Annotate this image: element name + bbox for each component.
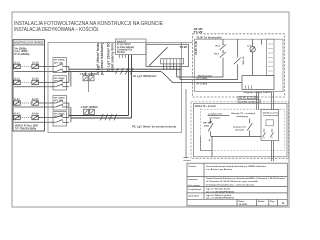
svg-text:2.4–2.6: 2.4–2.6 <box>32 77 39 80</box>
PV module string 1 last panel 1.4–1.6 <box>32 64 38 68</box>
battery stack tall box <box>267 39 274 75</box>
wire string 2 minus <box>14 86 56 88</box>
svg-text:Instalacja fotowoltaiczna – sc: Instalacja fotowoltaiczna – schemat ideo… <box>206 183 255 186</box>
svg-text:P=9,12kWp: P=9,12kWp <box>15 53 31 56</box>
svg-text:przyłączenie: przyłączenie <box>233 126 247 129</box>
svg-text:3.1–3.3: 3.1–3.3 <box>14 99 20 101</box>
meter slash <box>250 47 254 52</box>
incoming line <box>208 115 230 117</box>
fuse-disconnect group F1 box <box>53 58 67 73</box>
title block table <box>187 163 287 206</box>
svg-text:4.1–4.3: 4.1–4.3 <box>14 113 20 116</box>
svg-text:10.2021: 10.2021 <box>239 204 249 206</box>
svg-text:po trasie kablowej: po trasie kablowej <box>100 43 104 75</box>
riser wire lower minus <box>131 55 133 119</box>
TG board solid box <box>193 103 287 156</box>
wire below WB <box>237 64 239 79</box>
svg-text:Data:: Data: <box>239 200 245 203</box>
sub-board breaker 1 <box>263 129 266 139</box>
svg-text:Ust. sprawy:: Ust. sprawy: <box>188 184 200 187</box>
svg-text:TLW: TLW <box>180 45 188 49</box>
svg-text:mgr inż. Witold Cybulski: mgr inż. Witold Cybulski <box>206 194 231 197</box>
svg-text:kabel solarny 6mm: kabel solarny 6mm <box>110 43 114 72</box>
PV module string 4 first panel 4.1–4.3 <box>14 115 20 119</box>
svg-text:Rys:: Rys: <box>270 201 275 203</box>
sub-board device box <box>266 120 273 126</box>
wire out of blade <box>62 65 69 67</box>
switch blade F3 wire y=103.0 <box>56 100 62 103</box>
breaker SP blade <box>208 123 213 131</box>
riser wire lower plus <box>128 55 130 116</box>
wire pair down to TG b1 <box>271 92 273 111</box>
combiner output vertical 2 <box>179 69 181 79</box>
dashed series link string 4 <box>20 117 32 119</box>
svg-text:2.1–2.3: 2.1–2.3 <box>14 78 20 80</box>
wire pair down to TG a1 <box>256 92 258 111</box>
meter circle C2 <box>250 47 255 52</box>
wire string 4 minus <box>14 121 56 123</box>
disconnect switch Q2 <box>220 52 226 58</box>
wire pair down to TG b2 <box>273 92 275 111</box>
svg-text:Sprawdził:: Sprawdził: <box>188 195 199 197</box>
DC feed wire 2 to inverter <box>180 79 238 81</box>
svg-text:KONSTRUKCJA NA GRUNCIE: KONSTRUKCJA NA GRUNCIE <box>14 41 44 45</box>
wire stub inverter bus <box>261 39 263 44</box>
feeder switch wire top <box>249 119 251 124</box>
terminal strip <box>161 59 184 64</box>
switch blade F3 wire y=107.0 <box>56 104 62 107</box>
fuse-disconnect group F2 box <box>53 76 67 90</box>
sub-board outgoing wire 2 <box>273 141 275 162</box>
cable tag box SL TL <box>238 96 257 99</box>
wire drop to battery switch <box>237 39 239 57</box>
PV module string 2 last panel 2.4–2.6 <box>32 80 38 84</box>
PV module string 4 last panel 4.4–4.6 <box>32 115 38 119</box>
wire string 3 plus <box>38 102 56 104</box>
wire string 3 minus <box>14 106 56 108</box>
svg-text:przyłączenie: przyłączenie <box>209 113 224 115</box>
fuse-disconnect group F4 box <box>53 112 67 127</box>
SPD1 earth drop <box>88 81 90 92</box>
DC feed wire 3 to inverter <box>173 82 242 84</box>
fuse-disconnect group F3 box <box>53 96 67 111</box>
svg-text:-PV 1,2 MC4: -PV 1,2 MC4 <box>196 83 208 86</box>
switch blade F1 wire y=66.4 <box>56 64 62 67</box>
inverter station dashed enclosure <box>193 34 285 97</box>
svg-text:w m. Brzeźnio, gm. Brzeźnio: w m. Brzeźnio, gm. Brzeźnio <box>206 169 233 171</box>
PV module string 1 first panel 1.1–1.3 <box>14 64 20 68</box>
svg-text:ZŁW 2x (komplet): ZŁW 2x (komplet) <box>197 36 222 39</box>
svg-text:INSTALACJA DEDYKOWANA – KOŚCIÓ: INSTALACJA DEDYKOWANA – KOŚCIÓŁ <box>14 25 100 33</box>
svg-text:zewnętrznego: zewnętrznego <box>263 114 279 117</box>
battery disconnect switch WB <box>234 58 241 65</box>
svg-text:SP 3f: SP 3f <box>203 123 210 125</box>
combiner diagonal symbol <box>149 47 168 66</box>
PV module string 3 last panel 3.4–3.6 <box>32 101 38 105</box>
PV module string 3 first panel 3.1–3.3 <box>14 101 20 105</box>
wire out of blade <box>62 117 69 119</box>
switch blade F4 wire y=122.3 <box>56 120 62 123</box>
switch blade F2 wire y=86.7 <box>56 84 62 87</box>
wire out of blade <box>62 121 69 123</box>
wire string 1 plus <box>38 65 56 67</box>
svg-text:Skala:: Skala: <box>258 201 265 203</box>
svg-text:upr. nr LOD/2031/PWOE/13: upr. nr LOD/2031/PWOE/13 <box>206 198 235 200</box>
DC feed wire 1 to inverter <box>177 76 223 78</box>
inverter unit ticks <box>246 86 252 90</box>
notes box output ticks <box>120 55 126 59</box>
svg-text:istniejące: istniejące <box>210 117 222 120</box>
surge arrester SPD2 unit 1 <box>84 109 89 114</box>
svg-text:1 SZP 1000DC: 1 SZP 1000DC <box>81 107 99 109</box>
svg-text:Tablica TG – kościół: Tablica TG – kościół <box>195 105 216 108</box>
svg-text:upr. nr LOD/1536/PWOE/15: upr. nr LOD/1536/PWOE/15 <box>206 191 235 193</box>
svg-text:1.1–1.3: 1.1–1.3 <box>14 62 20 64</box>
cable notes box <box>116 39 147 55</box>
wire string 4 plus <box>38 117 56 119</box>
PV module string 2 first panel 2.1–2.3 <box>14 80 20 84</box>
svg-text:TYP: TSM-DE08 380Wp: TYP: TSM-DE08 380Wp <box>15 127 36 130</box>
cable count slashes lower bus <box>101 114 117 120</box>
wire between Q1 Q2 <box>222 50 224 52</box>
svg-text:istniejącej: istniejącej <box>236 115 248 118</box>
feeder switch wire bottom <box>249 130 251 136</box>
breaker SP wire bottom <box>210 131 212 136</box>
wire merge vertical plus strings 1-2 <box>68 66 70 82</box>
wire out of blade <box>62 102 69 104</box>
outdoor lighting sub-board box <box>261 110 279 141</box>
PV array enclosure <box>13 40 45 131</box>
svg-text:INSTALACJA FOTOWOLTAICZNA NA K: INSTALACJA FOTOWOLTAICZNA NA KONSTRUKCJI… <box>14 21 163 27</box>
svg-text:ZŁW TLW: ZŁW TLW <box>195 40 198 55</box>
DC bus pair upper minus <box>63 71 161 73</box>
TG inner corner wire <box>201 136 212 150</box>
TG earth drop <box>211 136 213 156</box>
switch blade F2 wire y=82.4 <box>56 80 62 83</box>
wire out of blade <box>62 106 69 108</box>
svg-text:ZŁW: ZŁW <box>194 29 204 31</box>
top bus line to inverter box <box>182 41 193 43</box>
svg-text:+PV 1,2 MC4: +PV 1,2 MC4 <box>196 77 208 80</box>
svg-text:3.4–3.6: 3.4–3.6 <box>32 98 39 101</box>
svg-text:Obwody TG – instalacji: Obwody TG – instalacji <box>231 112 255 115</box>
DC bus pair lower minus <box>71 117 132 119</box>
wire merge vertical minus strings 3-4 <box>70 107 72 122</box>
surge arrester SPD1 unit 2 <box>89 72 94 81</box>
svg-text:mgr inż. Wiesław Szyda: mgr inż. Wiesław Szyda <box>206 189 231 191</box>
inverter station inner box <box>195 39 284 91</box>
surge arrester SPD2 unit 2 <box>90 109 95 114</box>
dashed series link string 3 <box>20 102 32 104</box>
wire below Q2 <box>222 58 224 77</box>
svg-text:PE, LgY 16mm² do uziomu kościo: PE, LgY 16mm² do uziomu kościoła <box>132 125 177 129</box>
cable tag box 24T <box>238 100 261 103</box>
TG board dashed envelope <box>191 102 289 159</box>
svg-text:4.4–4.6: 4.4–4.6 <box>32 113 39 116</box>
svg-text:Parafia Rzymsko-Katolicka p.w.: Parafia Rzymsko-Katolicka p.w. Nawiedzen… <box>206 177 286 180</box>
combiner box TLW <box>146 44 189 66</box>
DC bus pair lower plus <box>69 115 129 117</box>
breaker SP wire top <box>210 119 212 123</box>
wire out of blade <box>62 86 69 88</box>
TG board inner dashed box <box>200 109 284 150</box>
combiner output diagonal <box>162 72 173 83</box>
svg-text:TLW: TLW <box>194 32 205 34</box>
svg-text:Projektował:: Projektował: <box>188 188 201 191</box>
sub-board breaker 2 <box>271 129 274 139</box>
inverter unit box <box>242 76 274 90</box>
sub-board outgoing wire 1 <box>271 141 273 162</box>
cable count slashes upper bus <box>116 68 134 74</box>
svg-text:uziom: uziom <box>184 160 191 162</box>
wire string 2 plus <box>38 81 56 83</box>
svg-text:tablica ośw.: tablica ośw. <box>263 111 280 114</box>
PE wire drop <box>184 89 189 158</box>
dashed series link string 1 <box>20 65 32 67</box>
TG bus wire <box>211 135 261 137</box>
svg-text:1.4–1.6: 1.4–1.6 <box>32 61 39 64</box>
wire below C2 <box>252 52 254 76</box>
feeder switch blade <box>247 123 252 130</box>
breaker SP cross <box>210 121 212 123</box>
dashed series link string 2 <box>20 81 32 83</box>
svg-text:obwody: obwody <box>235 130 245 132</box>
svg-text:25A: 25A <box>204 125 210 128</box>
svg-text:magazyn energii 2xBVR: magazyn energii 2xBVR <box>244 92 271 94</box>
svg-text:MC4 komplet: MC4 komplet <box>198 74 212 77</box>
combiner output vertical 1 <box>176 69 178 77</box>
surge arrester SPD1 unit 1 <box>83 72 88 81</box>
switch blade F4 wire y=117.5 <box>56 115 62 118</box>
wire drop to meter C2 <box>252 39 254 46</box>
svg-text:Temat:: Temat: <box>188 165 196 168</box>
DC cabling enclosure <box>48 42 182 132</box>
drawing frame <box>12 12 289 207</box>
wire out of blade <box>62 81 69 83</box>
wire merge vertical minus strings 1-2 <box>70 72 72 87</box>
wire drop to switch Q1 <box>222 39 224 44</box>
svg-text:Termomodernizacja budynku Kośc: Termomodernizacja budynku Kościoła p.w. … <box>206 166 267 168</box>
wire merge vertical plus strings 3-4 <box>68 103 70 118</box>
svg-text:WŁ.B: WŁ.B <box>243 56 245 65</box>
wire pair down to TG a2 <box>258 92 260 111</box>
disconnect switch Q1 <box>220 44 226 50</box>
svg-text:25x4mm: 25x4mm <box>117 51 125 54</box>
svg-text:Inwestor:: Inwestor: <box>188 178 198 181</box>
switch blade F1 wire y=71.6 <box>56 69 62 72</box>
terminal drops to DC bus <box>164 64 181 69</box>
svg-text:ul. Parkowa 12, 98-331 Brzeźni: ul. Parkowa 12, 98-331 Brzeźnio, pow. si… <box>206 181 258 183</box>
DC bus pair upper plus <box>69 68 182 70</box>
wire out of blade <box>62 71 69 73</box>
svg-text:1 SZP 1000DC: 1 SZP 1000DC <box>80 74 98 76</box>
wire string 1 minus <box>14 71 56 73</box>
